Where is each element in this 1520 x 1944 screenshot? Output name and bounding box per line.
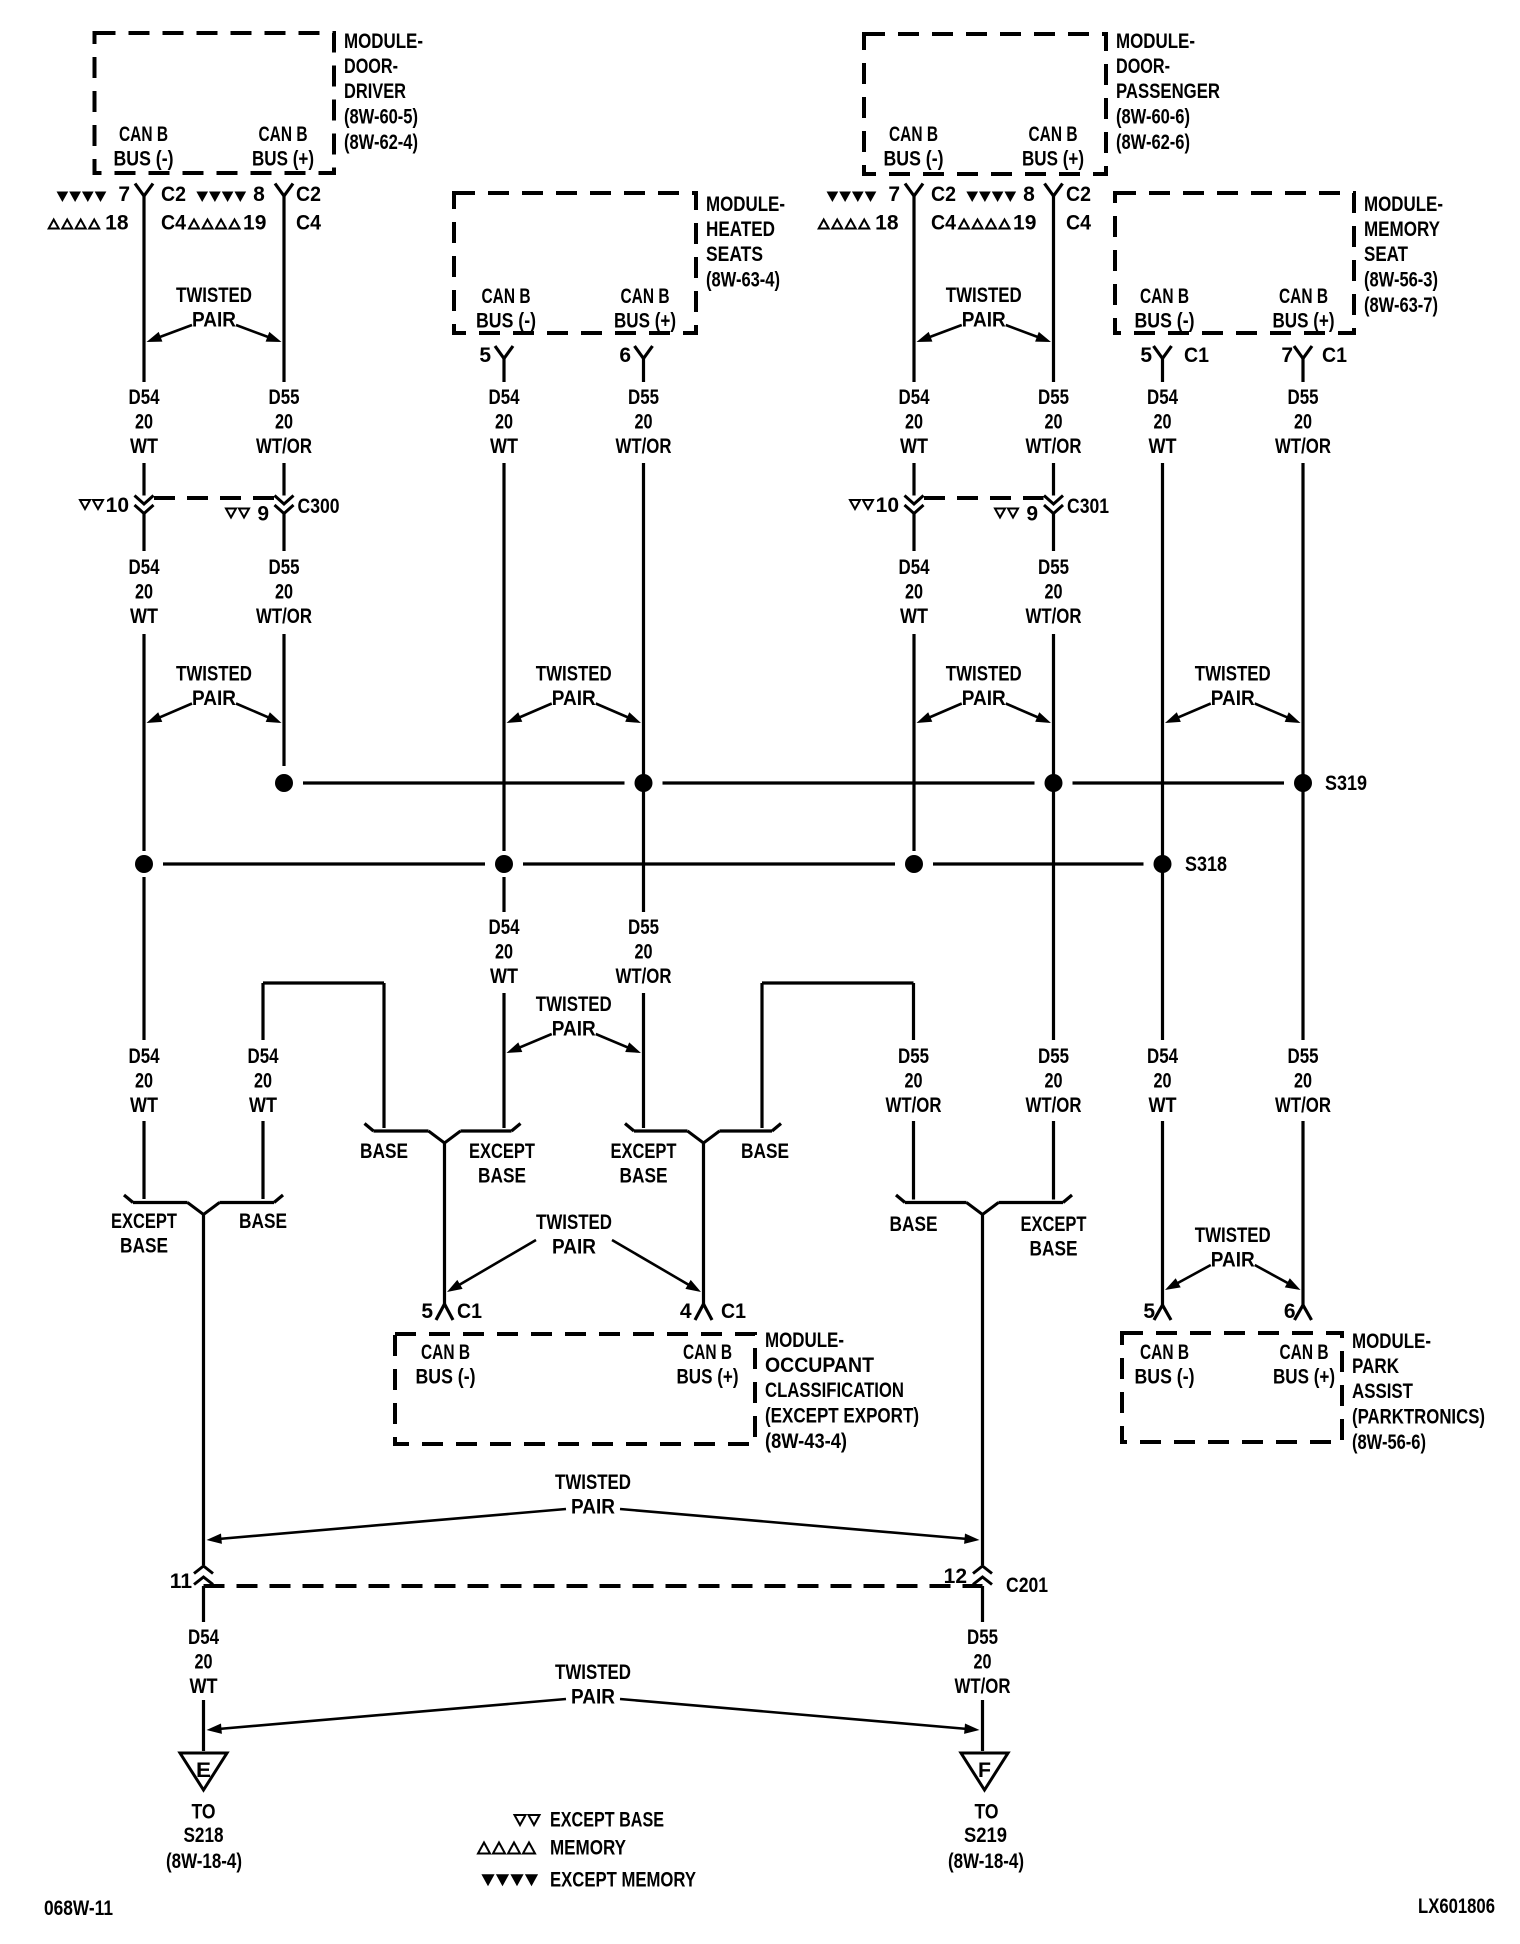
svg-text:BUS (+): BUS (+)	[252, 148, 314, 171]
svg-text:WT/OR: WT/OR	[256, 605, 312, 628]
wire D54 WT (driver door to splice S318 and bracket)	[142, 196, 145, 1199]
svg-text:D54: D54	[1147, 1045, 1178, 1068]
svg-text:BUS (+): BUS (+)	[677, 1366, 739, 1389]
svg-text:(8W-18-4): (8W-18-4)	[166, 1850, 242, 1873]
wire label D54 20 WT (passenger, below C301)	[899, 556, 930, 628]
wire label D54 20 WT (passenger)	[899, 386, 930, 458]
merge bracket (BASE / EXCEPT BASE) to connector C201 pin 12	[890, 1195, 1087, 1261]
svg-text:BASE: BASE	[620, 1165, 668, 1188]
svg-text:TO: TO	[192, 1801, 216, 1824]
svg-text:PAIR: PAIR	[571, 1686, 615, 1709]
connector pin 5 C1 (occupant classification)	[421, 1300, 482, 1323]
twisted pair callout (occupant classification)	[447, 1211, 701, 1292]
svg-text:WT/OR: WT/OR	[1275, 435, 1331, 458]
svg-text:CAN B: CAN B	[889, 123, 938, 146]
splice dot S319 at heated D55	[635, 774, 653, 792]
svg-text:D55: D55	[269, 556, 300, 579]
wire label D55 20 WT/OR (driver)	[256, 386, 312, 458]
svg-text:BASE: BASE	[1030, 1238, 1078, 1261]
svg-text:20: 20	[635, 411, 653, 434]
svg-text:EXCEPT: EXCEPT	[611, 1140, 677, 1163]
splice dot S318 at memory D54	[1154, 855, 1172, 873]
wire label D54 20 WT (heated, below S318)	[489, 916, 520, 988]
svg-text:(8W-62-6): (8W-62-6)	[1116, 131, 1190, 154]
svg-text:8: 8	[253, 183, 265, 206]
wire D54 WT (passenger door to splice S318)	[912, 196, 915, 851]
svg-text:WT: WT	[490, 965, 518, 988]
svg-text:WT/OR: WT/OR	[1026, 435, 1082, 458]
svg-text:C1: C1	[721, 1300, 746, 1323]
svg-text:TWISTED: TWISTED	[555, 1471, 631, 1494]
connector pin 7 C2 (passenger)	[819, 183, 957, 235]
svg-text:D55: D55	[628, 916, 659, 939]
svg-text:C201: C201	[1006, 1574, 1048, 1597]
svg-text:C4: C4	[1066, 212, 1091, 235]
svg-text:C1: C1	[1184, 344, 1209, 367]
svg-text:20: 20	[275, 411, 293, 434]
connector pin 5 C1 (memory seat)	[1140, 344, 1209, 367]
connector pin 7 C2 (driver, with except-memory / memory marks)	[49, 183, 187, 235]
svg-text:SEATS: SEATS	[706, 243, 763, 266]
wire to C201 pin 11	[202, 1215, 205, 1566]
wire label D55 20 WT/OR (bottom)	[955, 1626, 1011, 1698]
module box U2 MODULE-HEATED-SEATS	[454, 193, 785, 333]
svg-text:D55: D55	[628, 386, 659, 409]
svg-text:20: 20	[1045, 411, 1063, 434]
svg-text:WT/OR: WT/OR	[955, 1675, 1011, 1698]
legend: except memory	[482, 1869, 696, 1892]
wire D54 WT (memory seat to splice S318 and park assist)	[1161, 359, 1164, 1302]
svg-text:WT/OR: WT/OR	[1275, 1094, 1331, 1117]
wire label D54 20 WT (memory)	[1147, 386, 1178, 458]
svg-text:C4: C4	[931, 212, 956, 235]
svg-text:WT/OR: WT/OR	[616, 965, 672, 988]
svg-text:D55: D55	[1288, 1045, 1319, 1068]
svg-text:D54: D54	[129, 1045, 160, 1068]
svg-text:18: 18	[105, 212, 129, 235]
wire D55 WT/OR (memory seat to splice S319 and park assist)	[1301, 359, 1304, 1302]
wire label D55 20 WT/OR (heated)	[616, 386, 672, 458]
svg-text:20: 20	[135, 411, 153, 434]
wire jog D54 (base path, left)	[263, 983, 384, 1199]
svg-text:WT: WT	[900, 435, 928, 458]
svg-text:C2: C2	[931, 183, 956, 206]
svg-text:D54: D54	[1147, 386, 1178, 409]
svg-text:C2: C2	[296, 183, 321, 206]
svg-text:BUS (-): BUS (-)	[476, 310, 536, 333]
svg-text:MODULE-: MODULE-	[1364, 193, 1443, 216]
svg-text:CAN B: CAN B	[259, 123, 308, 146]
svg-text:9: 9	[1026, 503, 1038, 526]
svg-text:9: 9	[257, 503, 269, 526]
twisted pair callout (bottom harness)	[207, 1661, 980, 1734]
splice dot S318 at passenger D54	[905, 855, 923, 873]
in-line connector C300	[80, 494, 340, 526]
svg-text:BUS (-): BUS (-)	[884, 148, 944, 171]
connector pin 5 (heated seats)	[479, 344, 513, 367]
svg-text:CLASSIFICATION: CLASSIFICATION	[765, 1379, 904, 1402]
wire label D54 20 WT (bottom)	[188, 1626, 219, 1698]
wire D55 WT/OR (C201 to S219)	[981, 1586, 984, 1751]
svg-text:(8W-56-6): (8W-56-6)	[1352, 1431, 1426, 1454]
sheet number 068W-11	[44, 1897, 113, 1920]
svg-text:CAN B: CAN B	[1140, 1341, 1189, 1364]
svg-text:BUS (+): BUS (+)	[1273, 1366, 1335, 1389]
wire label D54 20 WT (driver, lower)	[129, 1045, 160, 1117]
svg-text:DOOR-: DOOR-	[1116, 55, 1170, 78]
svg-text:S318: S318	[1185, 853, 1227, 876]
svg-text:(8W-60-5): (8W-60-5)	[344, 106, 418, 129]
svg-text:D54: D54	[899, 386, 930, 409]
svg-text:(PARKTRONICS): (PARKTRONICS)	[1352, 1406, 1485, 1429]
svg-text:EXCEPT MEMORY: EXCEPT MEMORY	[550, 1869, 696, 1892]
svg-text:PARK: PARK	[1352, 1355, 1399, 1378]
module box U4 MODULE-MEMORY-SEAT	[1115, 193, 1443, 333]
svg-text:WT: WT	[190, 1675, 218, 1698]
svg-text:20: 20	[495, 941, 513, 964]
svg-text:8: 8	[1023, 183, 1035, 206]
svg-text:6: 6	[619, 344, 631, 367]
connector pin 6 (heated seats)	[619, 344, 652, 367]
svg-text:PAIR: PAIR	[1211, 687, 1255, 710]
svg-text:C2: C2	[161, 183, 186, 206]
svg-text:20: 20	[1154, 1070, 1172, 1093]
svg-text:TWISTED: TWISTED	[536, 993, 612, 1016]
svg-text:TWISTED: TWISTED	[176, 284, 252, 307]
svg-text:C301: C301	[1067, 495, 1109, 518]
svg-text:C1: C1	[1322, 344, 1347, 367]
svg-text:PAIR: PAIR	[192, 687, 236, 710]
svg-text:20: 20	[254, 1070, 272, 1093]
svg-text:BUS (-): BUS (-)	[114, 148, 174, 171]
svg-text:TWISTED: TWISTED	[1195, 1224, 1271, 1247]
svg-text:WT: WT	[490, 435, 518, 458]
svg-text:19: 19	[1013, 212, 1036, 235]
svg-text:D54: D54	[489, 386, 520, 409]
svg-text:20: 20	[1045, 1070, 1063, 1093]
twisted pair callout (driver, lower)	[147, 663, 282, 724]
label S319	[1325, 772, 1367, 795]
svg-text:CAN B: CAN B	[1029, 123, 1078, 146]
svg-text:WT: WT	[130, 1094, 158, 1117]
off-page connector E to S218	[166, 1753, 242, 1873]
svg-text:BASE: BASE	[890, 1213, 938, 1236]
svg-text:D54: D54	[489, 916, 520, 939]
svg-text:BUS (+): BUS (+)	[1022, 148, 1084, 171]
connector pin 5 (park assist)	[1143, 1300, 1171, 1323]
wire label D55 20 WT/OR (driver, below C300)	[256, 556, 312, 628]
svg-text:MODULE-: MODULE-	[1352, 1330, 1431, 1353]
svg-text:MEMORY: MEMORY	[550, 1837, 626, 1860]
svg-text:F: F	[978, 1759, 991, 1782]
svg-text:C4: C4	[296, 212, 321, 235]
wire label D55 20 WT/OR (memory)	[1275, 386, 1331, 458]
svg-text:EXCEPT: EXCEPT	[111, 1210, 177, 1233]
svg-text:D55: D55	[967, 1626, 998, 1649]
svg-text:DOOR-: DOOR-	[344, 55, 398, 78]
svg-text:C4: C4	[161, 212, 186, 235]
svg-text:BUS (-): BUS (-)	[416, 1366, 476, 1389]
svg-text:TWISTED: TWISTED	[1195, 663, 1271, 686]
wire label D55 20 WT/OR (passenger, below C301)	[1026, 556, 1082, 628]
svg-text:EXCEPT BASE: EXCEPT BASE	[550, 1809, 664, 1832]
legend: except base	[515, 1809, 665, 1832]
svg-text:19: 19	[243, 212, 266, 235]
svg-text:(8W-56-3): (8W-56-3)	[1364, 269, 1438, 292]
svg-text:S218: S218	[184, 1824, 224, 1847]
svg-text:CAN B: CAN B	[482, 285, 531, 308]
svg-text:D54: D54	[129, 556, 160, 579]
merge bracket (EXCEPT BASE / BASE) to OCM pin 4	[611, 1124, 790, 1188]
svg-text:20: 20	[195, 1651, 213, 1674]
svg-text:MODULE-: MODULE-	[765, 1329, 844, 1352]
svg-text:CAN B: CAN B	[1280, 1341, 1329, 1364]
svg-text:BASE: BASE	[239, 1210, 287, 1233]
twisted pair callout (driver, upper)	[147, 284, 282, 342]
svg-text:BASE: BASE	[741, 1140, 789, 1163]
wire to OCM pin 4 (CAN B +)	[702, 1143, 705, 1300]
wire label D55 20 WT/OR (passenger)	[1026, 386, 1082, 458]
svg-text:EXCEPT: EXCEPT	[469, 1140, 535, 1163]
wire to C201 pin 12	[981, 1215, 984, 1566]
svg-text:WT: WT	[130, 435, 158, 458]
wire D54 WT (C201 to S218)	[202, 1586, 205, 1751]
splice dot S319 at passenger D55	[1045, 774, 1063, 792]
svg-text:D55: D55	[1038, 386, 1069, 409]
svg-text:BASE: BASE	[478, 1165, 526, 1188]
svg-text:BASE: BASE	[120, 1235, 168, 1258]
svg-text:4: 4	[680, 1300, 692, 1323]
wire to OCM pin 5 (CAN B -)	[443, 1143, 446, 1300]
svg-text:WT/OR: WT/OR	[256, 435, 312, 458]
svg-text:CAN B: CAN B	[119, 123, 168, 146]
svg-text:PAIR: PAIR	[552, 1236, 596, 1259]
svg-text:5: 5	[479, 344, 491, 367]
svg-text:MODULE-: MODULE-	[1116, 30, 1195, 53]
splice dot S318 at driver D54	[135, 855, 153, 873]
svg-text:MEMORY: MEMORY	[1364, 218, 1440, 241]
svg-text:WT: WT	[900, 605, 928, 628]
wire label D54 20 WT (memory, lower)	[1147, 1045, 1178, 1117]
svg-text:E: E	[196, 1759, 211, 1782]
svg-text:PAIR: PAIR	[552, 687, 596, 710]
svg-text:WT: WT	[130, 605, 158, 628]
wire D55 WT/OR (heated seats to splice S319 and bracket)	[642, 359, 645, 1129]
svg-text:(8W-60-6): (8W-60-6)	[1116, 106, 1190, 129]
connector pin 4 C1 (occupant classification)	[680, 1300, 746, 1323]
svg-text:20: 20	[905, 411, 923, 434]
svg-text:WT/OR: WT/OR	[616, 435, 672, 458]
svg-text:C2: C2	[1066, 183, 1091, 206]
svg-text:7: 7	[1281, 344, 1293, 367]
svg-text:OCCUPANT: OCCUPANT	[765, 1354, 874, 1377]
svg-text:MODULE-: MODULE-	[344, 30, 423, 53]
legend: memory	[478, 1837, 626, 1860]
splice dot S319 at driver D55	[275, 774, 293, 792]
svg-text:BUS (+): BUS (+)	[614, 310, 676, 333]
svg-text:(8W-62-4): (8W-62-4)	[344, 131, 418, 154]
svg-text:(EXCEPT EXPORT): (EXCEPT EXPORT)	[765, 1405, 919, 1428]
label S318	[1185, 853, 1227, 876]
wire D55 WT/OR (passenger door to splice S319 and bracket)	[1052, 196, 1055, 1200]
twisted pair callout (heated seats, mid)	[507, 993, 642, 1053]
svg-text:SEAT: SEAT	[1364, 243, 1408, 266]
svg-text:20: 20	[905, 1070, 923, 1093]
svg-text:D55: D55	[269, 386, 300, 409]
svg-text:(8W-63-4): (8W-63-4)	[706, 269, 780, 292]
wire label D55 20 WT/OR (memory, lower)	[1275, 1045, 1331, 1117]
svg-text:TWISTED: TWISTED	[946, 284, 1022, 307]
svg-text:20: 20	[135, 581, 153, 604]
svg-text:C300: C300	[298, 495, 340, 518]
twisted pair callout (passenger, lower)	[917, 663, 1052, 724]
svg-text:D54: D54	[248, 1045, 279, 1068]
svg-text:D55: D55	[1288, 386, 1319, 409]
svg-text:20: 20	[1154, 411, 1172, 434]
svg-text:C1: C1	[457, 1300, 482, 1323]
svg-text:D54: D54	[188, 1626, 219, 1649]
svg-text:CAN B: CAN B	[1279, 285, 1328, 308]
svg-text:11: 11	[170, 1570, 193, 1593]
merge bracket (BASE / EXCEPT BASE) to OCM pin 5	[360, 1124, 535, 1188]
svg-text:5: 5	[421, 1300, 433, 1323]
twisted pair callout (C201 harness)	[207, 1471, 980, 1544]
svg-text:D54: D54	[899, 556, 930, 579]
connector pin 7 C1 (memory seat)	[1281, 344, 1347, 367]
module box U3 MODULE-DOOR-PASSENGER	[864, 30, 1220, 174]
wire label D54 20 WT (heated)	[489, 386, 520, 458]
svg-text:5: 5	[1140, 344, 1152, 367]
module box U5 MODULE-OCCUPANT-CLASSIFICATION	[395, 1329, 919, 1453]
wire label D55 20 WT/OR (heated, below S319)	[616, 916, 672, 988]
svg-text:18: 18	[875, 212, 899, 235]
svg-text:BUS (-): BUS (-)	[1135, 310, 1195, 333]
svg-text:7: 7	[888, 183, 900, 206]
wire label D54 20 WT (driver, below C300)	[129, 556, 160, 628]
svg-text:TWISTED: TWISTED	[555, 1661, 631, 1684]
svg-text:12: 12	[944, 1565, 967, 1588]
svg-text:WT/OR: WT/OR	[886, 1094, 942, 1117]
twisted pair callout (passenger, upper)	[917, 284, 1052, 342]
svg-text:WT/OR: WT/OR	[1026, 1094, 1082, 1117]
svg-text:MODULE-: MODULE-	[706, 193, 785, 216]
wire label D55 20 WT/OR (base jog, right)	[886, 1045, 942, 1117]
wire label D55 20 WT/OR (passenger, lower)	[1026, 1045, 1082, 1117]
merge bracket (EXCEPT BASE / BASE) to connector C201 pin 11	[111, 1195, 287, 1258]
svg-text:TWISTED: TWISTED	[536, 1211, 612, 1234]
svg-text:(8W-63-7): (8W-63-7)	[1364, 294, 1438, 317]
svg-text:20: 20	[635, 941, 653, 964]
svg-text:PAIR: PAIR	[962, 687, 1006, 710]
svg-text:20: 20	[495, 411, 513, 434]
connector pin 6 (park assist)	[1284, 1300, 1312, 1323]
in-line connector C201	[170, 1565, 1048, 1597]
svg-text:D55: D55	[898, 1045, 929, 1068]
wire D55 WT/OR (driver door to splice S319)	[282, 196, 285, 766]
svg-text:LX601806: LX601806	[1418, 1895, 1495, 1918]
svg-text:20: 20	[1294, 1070, 1312, 1093]
svg-text:D54: D54	[129, 386, 160, 409]
svg-text:TWISTED: TWISTED	[176, 663, 252, 686]
svg-text:20: 20	[974, 1651, 992, 1674]
svg-text:ASSIST: ASSIST	[1352, 1380, 1413, 1403]
svg-text:CAN B: CAN B	[421, 1341, 470, 1364]
svg-text:BUS (+): BUS (+)	[1273, 310, 1335, 333]
svg-text:D55: D55	[1038, 1045, 1069, 1068]
splice bus S319	[303, 781, 1284, 784]
splice bus S318	[163, 862, 1144, 865]
svg-text:WT: WT	[249, 1094, 277, 1117]
svg-text:068W-11: 068W-11	[44, 1897, 113, 1920]
svg-text:20: 20	[905, 581, 923, 604]
svg-text:BASE: BASE	[360, 1140, 408, 1163]
svg-text:20: 20	[1045, 581, 1063, 604]
svg-text:PAIR: PAIR	[1211, 1249, 1255, 1272]
svg-text:(8W-43-4): (8W-43-4)	[765, 1430, 847, 1453]
wire label D54 20 WT (driver)	[129, 386, 160, 458]
svg-text:7: 7	[118, 183, 130, 206]
svg-text:CAN B: CAN B	[1140, 285, 1189, 308]
svg-text:PAIR: PAIR	[552, 1018, 596, 1041]
connector pin 8 C2 (driver)	[189, 183, 321, 235]
svg-text:WT: WT	[1149, 1094, 1177, 1117]
svg-text:DRIVER: DRIVER	[344, 80, 406, 103]
svg-text:EXCEPT: EXCEPT	[1021, 1213, 1087, 1236]
svg-text:PAIR: PAIR	[192, 309, 236, 332]
splice dot S318 at heated D54	[495, 855, 513, 873]
svg-text:10: 10	[106, 494, 129, 517]
svg-text:10: 10	[876, 494, 899, 517]
svg-text:WT: WT	[1149, 435, 1177, 458]
svg-text:S219: S219	[964, 1824, 1007, 1847]
twisted pair callout (park assist)	[1165, 1224, 1301, 1290]
in-line connector C301	[850, 494, 1109, 526]
wire jog D55 (base path, right)	[762, 983, 914, 1200]
module box U6 MODULE-PARK-ASSIST	[1122, 1330, 1485, 1454]
svg-text:WT/OR: WT/OR	[1026, 605, 1082, 628]
svg-text:HEATED: HEATED	[706, 218, 775, 241]
svg-text:20: 20	[135, 1070, 153, 1093]
svg-text:TWISTED: TWISTED	[536, 663, 612, 686]
svg-text:(8W-18-4): (8W-18-4)	[948, 1850, 1024, 1873]
svg-text:20: 20	[275, 581, 293, 604]
svg-text:CAN B: CAN B	[621, 285, 670, 308]
module box U1 MODULE-DOOR-DRIVER	[95, 30, 424, 173]
splice dot S319 at memory D55	[1294, 774, 1312, 792]
svg-text:CAN B: CAN B	[683, 1341, 732, 1364]
off-page connector F to S219	[948, 1753, 1024, 1873]
wire D54 WT (heated seats to splice S318 and bracket)	[502, 359, 505, 1129]
twisted pair callout (memory seat)	[1165, 663, 1301, 724]
svg-text:PAIR: PAIR	[571, 1496, 615, 1519]
svg-text:S319: S319	[1325, 772, 1367, 795]
svg-text:D55: D55	[1038, 556, 1069, 579]
svg-text:PASSENGER: PASSENGER	[1116, 80, 1220, 103]
svg-text:BUS (-): BUS (-)	[1135, 1366, 1195, 1389]
twisted pair callout (heated seats)	[507, 663, 642, 724]
drawing id LX601806	[1418, 1895, 1495, 1918]
connector pin 8 C2 (passenger)	[959, 183, 1091, 235]
svg-text:20: 20	[1294, 411, 1312, 434]
svg-text:PAIR: PAIR	[962, 309, 1006, 332]
svg-text:TWISTED: TWISTED	[946, 663, 1022, 686]
svg-text:TO: TO	[975, 1801, 999, 1824]
wire label D54 20 WT (base jog, left)	[248, 1045, 279, 1117]
